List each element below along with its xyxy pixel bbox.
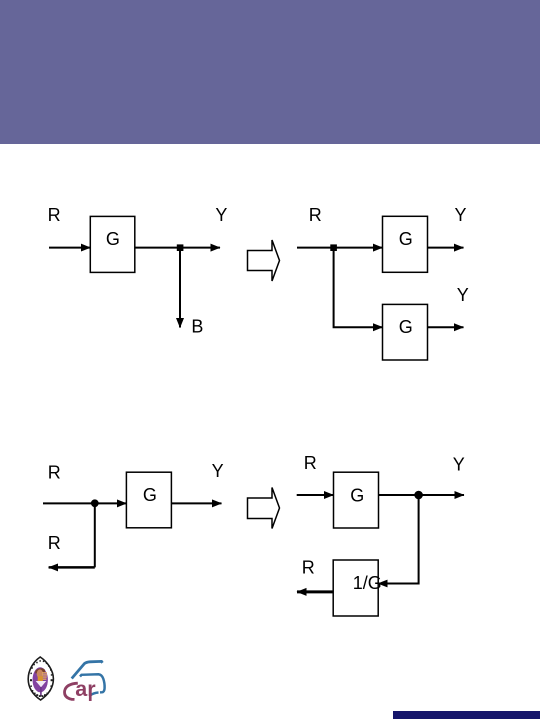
wire output G4 to Y with junction: [379, 494, 465, 496]
svg-text:Y: Y: [212, 461, 224, 481]
svg-text:Y: Y: [215, 205, 227, 225]
block 1/G: [333, 560, 378, 616]
svg-text:R: R: [48, 533, 61, 553]
university seal logo: [28, 657, 53, 700]
wire branch down to G2b: [334, 248, 383, 328]
svg-text:R: R: [309, 205, 322, 225]
svg-text:G: G: [399, 317, 413, 337]
svg-text:G: G: [399, 229, 413, 249]
transform block arrow 2: [248, 488, 280, 529]
svg-text:Y: Y: [453, 455, 465, 475]
wire input R to G4: [297, 494, 334, 496]
wire output G3 to Y: [171, 502, 221, 504]
svg-text:ar: ar: [75, 677, 96, 701]
header band: [0, 0, 540, 144]
node junction dot (diagram 3): [91, 499, 99, 507]
block G2a: [383, 216, 428, 272]
node junction square (diagram 2): [330, 244, 337, 251]
svg-text:R: R: [48, 463, 61, 483]
svg-text:Y: Y: [457, 285, 469, 305]
wire output 1/G to R2: [297, 590, 333, 593]
node junction dot (diagram 4): [414, 491, 423, 500]
svg-text:Y: Y: [455, 205, 467, 225]
wire input arrow R to G1: [49, 247, 90, 249]
block G4: [334, 472, 379, 528]
wire output G2b to Y2: [428, 326, 464, 328]
wire branch down-left to R2: [94, 503, 96, 567]
wire branch down to B: [179, 248, 181, 328]
block G3: [126, 472, 171, 528]
svg-text:G: G: [350, 486, 364, 506]
block G1: [90, 216, 135, 272]
node junction square (diagram 1): [177, 244, 184, 251]
svg-text:1/G: 1/G: [353, 573, 382, 593]
transform block arrow 1: [248, 240, 280, 281]
svg-text:R: R: [304, 453, 317, 473]
svg-text:R: R: [302, 557, 315, 577]
footer bar: [393, 711, 540, 719]
svg-text:G: G: [143, 485, 157, 505]
wire output G2a to Y: [428, 247, 464, 249]
svg-text:B: B: [191, 317, 203, 337]
block G2b: [383, 304, 428, 360]
svg-text:R: R: [48, 205, 61, 225]
wire input R to G2a: [297, 247, 383, 249]
svg-text:G: G: [106, 229, 120, 249]
wire input R to G3: [43, 502, 126, 504]
wire output G1 to Y: [135, 247, 220, 249]
wire feedback down-left into 1/G: [378, 495, 418, 584]
CAR logo: [65, 661, 105, 701]
